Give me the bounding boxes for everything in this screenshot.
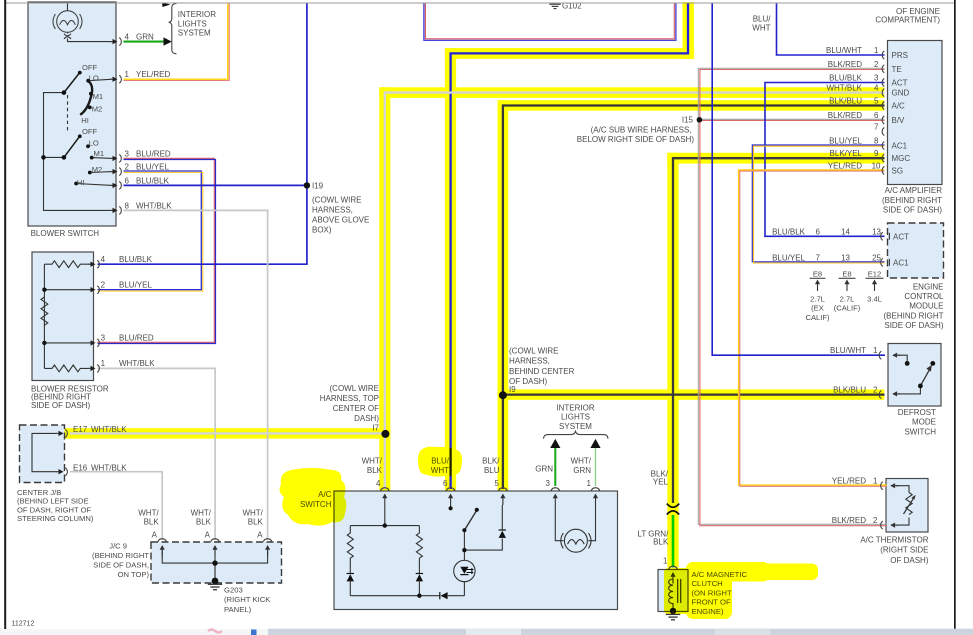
interior lights partial arrow top <box>162 3 171 8</box>
blower switch pin 8 <box>110 206 121 214</box>
blower resistor pin 1 <box>88 364 99 372</box>
svg-text:BOX): BOX) <box>312 226 332 235</box>
svg-text:3: 3 <box>101 334 106 343</box>
svg-text:BLU/BLK: BLU/BLK <box>119 255 153 264</box>
label CENTER J/B <box>17 488 94 523</box>
center J/B pin E16 <box>56 468 67 476</box>
svg-text:GRN: GRN <box>535 465 553 474</box>
A/C switch pin arcs <box>381 488 390 491</box>
svg-text:LO: LO <box>89 74 99 83</box>
wire WHT/BLK resistor pin 1 to J/C 9 <box>98 368 216 540</box>
highlight blob BLU/WHT label <box>418 447 462 477</box>
label WHT/GRN above pin 1 <box>571 457 592 488</box>
svg-text:(RIGHT KICK: (RIGHT KICK <box>224 595 271 604</box>
svg-text:BLU/BLK: BLU/BLK <box>829 74 863 83</box>
svg-text:SIDE OF DASH,: SIDE OF DASH, <box>93 561 149 570</box>
label INTERIOR LIGHTS SYSTEM bottom <box>556 404 594 431</box>
svg-text:M1: M1 <box>93 92 104 101</box>
A/C magnetic clutch box <box>658 570 688 612</box>
node I9 <box>499 391 507 399</box>
label BLK/YEL wire <box>651 469 669 486</box>
interior lights arrow GRN <box>164 37 172 45</box>
label BLU/WHT top <box>752 14 771 32</box>
J/C 9 internal arrows and bus <box>162 547 267 584</box>
bottom rail <box>350 595 464 597</box>
svg-text:25: 25 <box>872 253 881 262</box>
clutch coil <box>672 579 674 608</box>
svg-text:GND: GND <box>892 89 910 98</box>
svg-text:SYSTEM: SYSTEM <box>559 422 592 431</box>
svg-text:2: 2 <box>101 280 106 289</box>
svg-text:INTERIOR: INTERIOR <box>556 404 594 413</box>
resistor element vertical <box>41 297 48 325</box>
highlight E17 WHT/BLK horizontal wire <box>64 428 391 438</box>
interior lights arrow GRN <box>550 439 560 448</box>
highlight BLK/YEL + LT GRN/BLK vertical wire <box>667 153 678 568</box>
svg-text:7: 7 <box>874 123 879 132</box>
svg-text:CALIF): CALIF) <box>805 313 830 322</box>
label blower switch positions upper <box>77 63 104 187</box>
bottom UI band <box>0 629 973 635</box>
SEC:BLOBS <box>280 447 818 619</box>
thermistor element <box>906 493 912 515</box>
svg-text:3: 3 <box>874 74 879 83</box>
svg-text:6: 6 <box>443 479 448 488</box>
center J/B internal bus <box>32 433 58 471</box>
highlight blob over clutch box <box>664 568 690 614</box>
page right border <box>954 0 956 629</box>
svg-text:(COWL WIRE: (COWL WIRE <box>330 384 379 393</box>
svg-text:DEFROST: DEFROST <box>898 408 936 417</box>
wire BLU/BLK vertical through I19 to resistor pin 4 <box>98 3 307 264</box>
clutch internal arrow <box>670 572 675 584</box>
blower resistor pin 3 <box>88 339 99 347</box>
wire WHT/BLK GND long core amp pin 4 to A/C switch pin 4 <box>385 93 885 489</box>
ECM pin arcs <box>881 232 883 240</box>
label GRN above pin 3 <box>535 465 553 488</box>
svg-text:5: 5 <box>495 479 500 488</box>
wire pair RED+BLU loop to top left <box>425 3 674 39</box>
blower switch box <box>28 2 116 226</box>
svg-text:4: 4 <box>101 255 106 264</box>
ground G203 <box>208 584 222 589</box>
defrost mode switch box <box>888 344 941 407</box>
svg-text:M2: M2 <box>92 165 103 174</box>
page top border <box>6 2 954 4</box>
pin 3 drop to lamp <box>555 505 563 541</box>
svg-text:SWITCH: SWITCH <box>904 427 936 436</box>
blower resistor pin 4 <box>88 260 99 268</box>
blower resistor box <box>32 252 94 381</box>
blower resistor pin 2 <box>88 286 99 294</box>
highlight BLU/WHT vertical wire to pin 6 <box>445 48 456 491</box>
svg-text:BLK: BLK <box>248 518 264 527</box>
label LT GRN/BLK wire <box>637 529 669 546</box>
svg-text:BEHIND CENTER: BEHIND CENTER <box>509 367 575 376</box>
svg-text:4: 4 <box>376 479 381 488</box>
A/C switch lamp <box>564 529 587 552</box>
thermistor internal wiring <box>896 486 909 525</box>
switch common vertical <box>463 532 465 551</box>
svg-text:3.4L: 3.4L <box>867 294 882 303</box>
svg-text:112712: 112712 <box>12 620 35 627</box>
svg-text:WHT/BLK: WHT/BLK <box>826 84 862 93</box>
svg-text:BLU/BLK: BLU/BLK <box>136 176 170 185</box>
svg-text:4: 4 <box>874 84 879 93</box>
svg-text:8: 8 <box>874 137 879 146</box>
svg-text:LIGHTS: LIGHTS <box>561 413 590 422</box>
wire HI to pin 6 <box>76 184 112 186</box>
label WHT/BLK above A/C switch pin 4 <box>362 457 383 488</box>
svg-text:OFF: OFF <box>82 63 98 72</box>
svg-text:BLK: BLK <box>196 518 212 527</box>
svg-text:MODULE: MODULE <box>909 302 943 311</box>
svg-text:ABOVE GLOVE: ABOVE GLOVE <box>312 216 369 225</box>
svg-text:(RIGHT SIDE: (RIGHT SIDE <box>880 546 928 555</box>
svg-text:(COWL WIRE: (COWL WIRE <box>509 346 558 355</box>
svg-text:BLU/RED: BLU/RED <box>119 334 154 343</box>
svg-text:A: A <box>257 530 263 539</box>
svg-text:AC1: AC1 <box>893 259 909 268</box>
svg-text:BLU: BLU <box>484 466 500 475</box>
interior lights arrow WHT/GRN <box>590 439 600 448</box>
highlight WHT/BLK horizontal GND wire <box>379 87 884 98</box>
svg-text:SG: SG <box>892 167 904 176</box>
wire BLK/YEL core amp pin 9 to connector <box>673 158 885 503</box>
interior lights brace top left <box>169 4 177 54</box>
ECM pin row AC1 <box>772 253 881 262</box>
center J/B pin E17 <box>56 429 67 437</box>
svg-text:BLK: BLK <box>367 466 383 475</box>
defrost pin labels <box>830 346 878 394</box>
svg-text:13: 13 <box>841 253 850 262</box>
svg-text:3: 3 <box>546 479 551 488</box>
A/C switch internals <box>347 505 595 596</box>
highlight BLU/WHT top vertical wire <box>683 2 694 59</box>
svg-text:WHT/: WHT/ <box>362 457 383 466</box>
svg-text:GRN: GRN <box>136 33 154 42</box>
node I19 <box>304 182 310 188</box>
label BLU/WHT above pin 6 highlighted <box>431 457 450 476</box>
svg-text:BLU/YEL: BLU/YEL <box>772 253 805 262</box>
wire WHT/BLK blower switch pin 8 to J/C 9 <box>124 210 268 540</box>
svg-text:WHT/: WHT/ <box>138 509 159 518</box>
svg-text:STEERING COLUMN): STEERING COLUMN) <box>17 514 94 523</box>
label A/C THERMISTOR <box>860 535 928 564</box>
svg-text:WHT/: WHT/ <box>191 509 212 518</box>
svg-text:BLK/RED: BLK/RED <box>832 516 866 525</box>
svg-text:7: 7 <box>816 253 821 262</box>
highlight BLK/BLU vertical wire <box>498 100 509 491</box>
node I15 <box>697 117 703 123</box>
svg-text:MGC: MGC <box>892 154 911 163</box>
svg-text:2: 2 <box>873 386 878 395</box>
A/C switch internal arrows <box>382 494 387 506</box>
blower switch contact dots <box>41 71 93 186</box>
label G203 <box>224 586 271 614</box>
blower switch left bus <box>44 93 113 211</box>
ECM connector bars E8 E8 E12 <box>810 277 884 279</box>
blower switch upper lever <box>64 74 79 93</box>
svg-text:2: 2 <box>873 516 878 525</box>
blower switch lamp stub top <box>67 3 69 11</box>
ECM variant arrows <box>815 280 877 292</box>
engine control module box <box>888 223 944 278</box>
svg-text:14: 14 <box>841 227 850 236</box>
svg-text:I7: I7 <box>372 424 379 433</box>
svg-text:GRN: GRN <box>573 466 591 475</box>
svg-text:1: 1 <box>125 70 130 79</box>
svg-text:WHT/BLK: WHT/BLK <box>136 201 172 210</box>
ECM connector ids <box>805 269 881 322</box>
svg-text:3: 3 <box>125 149 130 158</box>
branch to pin 5 diode <box>464 505 502 550</box>
svg-text:G203: G203 <box>224 586 243 595</box>
svg-text:BLK: BLK <box>653 537 669 546</box>
svg-text:HI: HI <box>77 178 85 187</box>
pin 5 drop <box>501 504 504 506</box>
blower switch pin 3 <box>110 154 121 162</box>
wire GRN A/C switch pin 3 to interior lights <box>554 448 556 487</box>
svg-text:(BEHIND RIGHT: (BEHIND RIGHT <box>882 196 942 205</box>
svg-text:OF DASH, RIGHT OF: OF DASH, RIGHT OF <box>17 505 91 514</box>
svg-text:(BEHIND RIGHT: (BEHIND RIGHT <box>884 311 944 320</box>
svg-text:1: 1 <box>587 479 592 488</box>
clutch plates <box>678 579 681 603</box>
svg-text:CENTER OF: CENTER OF <box>333 404 379 413</box>
wire BLK/RED amp pin 6 to I15 <box>699 118 884 120</box>
top rail <box>350 525 419 527</box>
blower switch pin 2 <box>110 168 121 176</box>
blower switch pin 6 <box>110 181 121 189</box>
highlight blob A/C MAGNETIC CLUTCH label <box>686 562 770 582</box>
svg-text:BLK/RED: BLK/RED <box>828 111 862 120</box>
SEC:BANDS <box>64 2 885 568</box>
LED branch vertical <box>463 550 465 596</box>
label ENGINE CONTROL MODULE <box>884 282 945 330</box>
svg-text:2: 2 <box>874 60 879 69</box>
node I7 <box>381 430 389 438</box>
svg-text:M2: M2 <box>92 105 103 114</box>
wire YEL/RED amp pin 10 to thermistor pin 1 <box>739 170 887 485</box>
interior lights brace bottom <box>544 430 609 438</box>
A/C switch LED <box>454 560 475 581</box>
svg-text:E8: E8 <box>842 269 851 278</box>
svg-text:WHT/: WHT/ <box>242 509 263 518</box>
J/C 9 pin A arcs <box>158 539 167 542</box>
svg-text:8: 8 <box>125 201 130 210</box>
svg-text:ACT: ACT <box>893 233 909 242</box>
svg-text:BLU/WHT: BLU/WHT <box>826 46 862 55</box>
svg-text:HARNESS,: HARNESS, <box>509 357 550 366</box>
svg-text:CONTROL: CONTROL <box>904 292 944 301</box>
svg-text:A/C AMPLIFIER: A/C AMPLIFIER <box>885 186 943 195</box>
svg-text:BLK/BLU: BLK/BLU <box>833 386 866 395</box>
label A/C SWITCH highlighted <box>300 490 332 509</box>
svg-text:BLU/YEL: BLU/YEL <box>136 163 169 172</box>
svg-text:BLOWER SWITCH: BLOWER SWITCH <box>31 229 100 238</box>
label BLK/BLU above pin 5 <box>482 457 500 488</box>
svg-text:BLK/RED: BLK/RED <box>828 60 862 69</box>
svg-text:A/C: A/C <box>892 102 906 111</box>
svg-text:OFF: OFF <box>82 127 98 136</box>
svg-text:2.7L: 2.7L <box>810 294 825 303</box>
blower switch upper rotary contact arc <box>80 81 92 115</box>
label WHT/BLK x3 above J/C 9 <box>138 509 263 540</box>
svg-text:LO: LO <box>89 138 99 147</box>
svg-text:9: 9 <box>874 149 879 158</box>
highlight WHT/BLK vertical wire <box>379 87 390 491</box>
svg-text:OF DASH): OF DASH) <box>890 556 929 565</box>
svg-text:BELOW RIGHT SIDE OF DASH): BELOW RIGHT SIDE OF DASH) <box>577 135 695 144</box>
blower switch pin 4 <box>110 38 121 46</box>
wire WHT/GRN A/C switch pin 1 to interior lights <box>595 448 597 487</box>
svg-text:6: 6 <box>816 227 821 236</box>
svg-text:2.7L: 2.7L <box>840 294 855 303</box>
A/C switch junction dots <box>383 506 479 598</box>
switch lever <box>464 511 476 531</box>
pin 1 drop to lamp <box>588 505 595 541</box>
wire BLU/YEL amp pin 8 to ECM AC1 <box>752 145 884 262</box>
svg-text:A: A <box>152 530 158 539</box>
A/C switch diodes <box>347 529 506 599</box>
resistor junction dots <box>42 288 46 292</box>
wire GRN blower switch pin 4 <box>124 41 164 43</box>
pin 4 drop <box>384 505 386 526</box>
mechanical link dashed <box>67 95 69 133</box>
svg-text:ACT: ACT <box>892 79 908 88</box>
wire BLU/BLK blower switch pin 6 to node I19 <box>124 184 307 186</box>
svg-text:ON TOP): ON TOP) <box>118 570 150 579</box>
wire LT GRN/BLK connector to clutch pin 1 <box>672 515 675 568</box>
wire M2 to pin 2 <box>90 171 113 174</box>
defrost internal pin 2 and lever <box>892 391 900 396</box>
svg-text:WHT/: WHT/ <box>571 457 592 466</box>
svg-text:(EX: (EX <box>811 304 824 313</box>
center J/B box <box>20 425 65 483</box>
svg-text:BLU/YEL: BLU/YEL <box>119 280 152 289</box>
svg-text:BLU/BLK: BLU/BLK <box>772 227 806 236</box>
svg-text:PANEL): PANEL) <box>224 605 252 614</box>
svg-text:B/V: B/V <box>892 116 906 125</box>
svg-text:2: 2 <box>125 163 130 172</box>
svg-text:E8: E8 <box>813 269 822 278</box>
svg-text:(BEHIND LEFT SIDE: (BEHIND LEFT SIDE <box>17 497 89 506</box>
svg-text:WHT/BLK: WHT/BLK <box>91 464 127 473</box>
page left border <box>4 0 6 629</box>
wire to pin 3 <box>44 342 92 344</box>
svg-text:SIDE OF DASH): SIDE OF DASH) <box>883 206 942 215</box>
svg-text:YEL/RED: YEL/RED <box>828 162 862 171</box>
highlight BLK/BLU defrost branch wire <box>498 389 885 399</box>
resistor element pin 4 row <box>44 261 92 268</box>
svg-text:BLU/RED: BLU/RED <box>136 149 171 158</box>
svg-text:DASH): DASH) <box>354 414 379 423</box>
svg-text:1: 1 <box>874 46 879 55</box>
svg-text:A: A <box>205 530 211 539</box>
svg-text:YEL/RED: YEL/RED <box>136 70 170 79</box>
thermistor pins <box>881 482 883 490</box>
svg-text:MODE: MODE <box>912 418 936 427</box>
wire BLK/RED amp pin 2 via I15 to thermistor pin 2 <box>698 68 887 524</box>
defrost internal pin 1 <box>892 353 900 358</box>
highlight blob A/C SWITCH label <box>280 468 347 526</box>
blower resistor internals <box>41 261 92 372</box>
svg-text:E17: E17 <box>73 425 88 434</box>
svg-text:BLK/BLU: BLK/BLU <box>829 97 862 106</box>
svg-text:HARNESS, TOP: HARNESS, TOP <box>320 394 379 403</box>
svg-text:BLU/YEL: BLU/YEL <box>829 137 862 146</box>
J/C 9 box <box>151 542 282 583</box>
svg-text:10: 10 <box>872 162 881 171</box>
svg-text:LIGHTS: LIGHTS <box>178 19 207 28</box>
svg-text:BLU/: BLU/ <box>753 14 772 23</box>
resistor bus <box>43 264 45 368</box>
wire BLU/WHT top to defrost pin 1 <box>712 3 885 355</box>
right resistor branch <box>416 526 422 596</box>
svg-text:WHT: WHT <box>752 24 770 33</box>
highlight BLK/YEL horizontal MGC wire <box>667 153 884 164</box>
svg-text:BLK/YEL: BLK/YEL <box>830 149 863 158</box>
wire BLU/WHT amp pin 1 to top <box>777 3 885 55</box>
wire M1 to pin 3 <box>92 157 113 160</box>
wire to pin 2 <box>44 289 92 291</box>
svg-text:J/C 9: J/C 9 <box>109 541 127 550</box>
A/C amplifier pin arcs 1-10 <box>882 51 884 59</box>
ground G102 <box>549 4 560 8</box>
svg-text:HI: HI <box>81 116 89 125</box>
wire BLK/BLU core amp pin 5 to A/C switch pin 5 <box>503 106 885 490</box>
SEC:WIRES <box>70 3 887 568</box>
wire BLU/BLK amp pin 3 to ECM ACT <box>765 83 885 237</box>
svg-text:E16: E16 <box>73 464 88 473</box>
label A/C AMPLIFIER <box>882 186 942 215</box>
amp pin labels <box>826 46 881 171</box>
svg-text:I9: I9 <box>509 385 516 394</box>
wire BLU/WHT highlighted top to A/C switch pin 6 <box>451 3 688 489</box>
svg-text:HARNESS,: HARNESS, <box>312 206 353 215</box>
svg-text:5: 5 <box>874 97 879 106</box>
highlight BLU/WHT horizontal wire <box>445 48 694 59</box>
A/C switch box <box>334 491 618 610</box>
defrost mode switch pins <box>879 351 881 359</box>
svg-text:PRS: PRS <box>892 51 908 60</box>
svg-text:I15: I15 <box>682 115 694 124</box>
wire lamp to pin 4 <box>68 39 113 42</box>
blower switch lower lever <box>64 137 79 157</box>
svg-text:INTERIOR: INTERIOR <box>178 10 216 19</box>
label J/C 9 <box>92 541 149 579</box>
resistor element pin 1 row <box>44 365 92 372</box>
svg-text:YEL/RED: YEL/RED <box>832 477 866 486</box>
clutch ground dot <box>670 608 676 614</box>
A/C thermistor box <box>886 479 928 533</box>
svg-text:SIDE OF DASH): SIDE OF DASH) <box>884 321 943 330</box>
thermistor pin labels <box>832 477 878 525</box>
svg-text:13: 13 <box>872 227 881 236</box>
svg-text:AC1: AC1 <box>892 142 908 151</box>
ECM pin row ACT <box>772 227 881 236</box>
inline connector BLK/YEL to LT GRN/BLK <box>667 504 679 508</box>
label OF ENGINE COMPARTMENT <box>875 7 940 25</box>
svg-text:WHT/BLK: WHT/BLK <box>119 359 155 368</box>
wire YEL/RED blower switch pin 1 to top <box>124 3 228 79</box>
svg-text:BLK/: BLK/ <box>482 457 500 466</box>
wire E17 WHT/BLK core to I7 <box>70 432 385 434</box>
A/C amplifier box <box>888 41 943 185</box>
svg-text:A/C THERMISTOR: A/C THERMISTOR <box>860 535 928 544</box>
clutch ground <box>672 611 674 614</box>
